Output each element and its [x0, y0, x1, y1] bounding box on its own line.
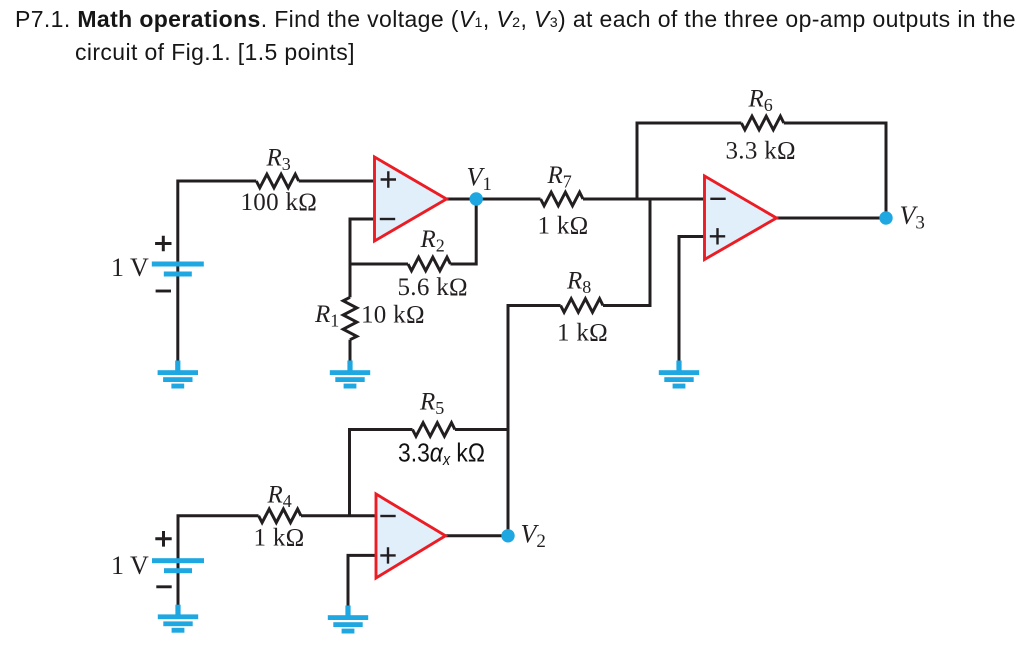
svg-text:R2: R2 — [420, 226, 445, 256]
svg-text:R7: R7 — [547, 162, 572, 192]
svg-text:1 V: 1 V — [111, 253, 149, 282]
svg-text:R4: R4 — [267, 482, 292, 512]
svg-text:1 V: 1 V — [111, 551, 149, 580]
svg-text:10 kΩ: 10 kΩ — [361, 302, 425, 329]
svg-text:R1: R1 — [314, 301, 339, 331]
svg-text:5.6 kΩ: 5.6 kΩ — [398, 274, 468, 301]
svg-text:100 kΩ: 100 kΩ — [241, 189, 318, 216]
svg-text:1 kΩ: 1 kΩ — [254, 525, 305, 552]
svg-text:V1: V1 — [467, 163, 492, 196]
svg-text:R6: R6 — [748, 86, 773, 116]
svg-text:1 kΩ: 1 kΩ — [557, 320, 608, 347]
svg-text:V3: V3 — [900, 201, 925, 234]
svg-text:R5: R5 — [419, 389, 444, 419]
svg-text:3.3 kΩ: 3.3 kΩ — [726, 138, 796, 165]
svg-text:R8: R8 — [566, 268, 591, 298]
svg-text:1 kΩ: 1 kΩ — [538, 213, 589, 240]
svg-text:V2: V2 — [521, 520, 546, 553]
svg-text:3.3αx kΩ: 3.3αx kΩ — [398, 439, 485, 469]
svg-text:R3: R3 — [266, 145, 291, 175]
